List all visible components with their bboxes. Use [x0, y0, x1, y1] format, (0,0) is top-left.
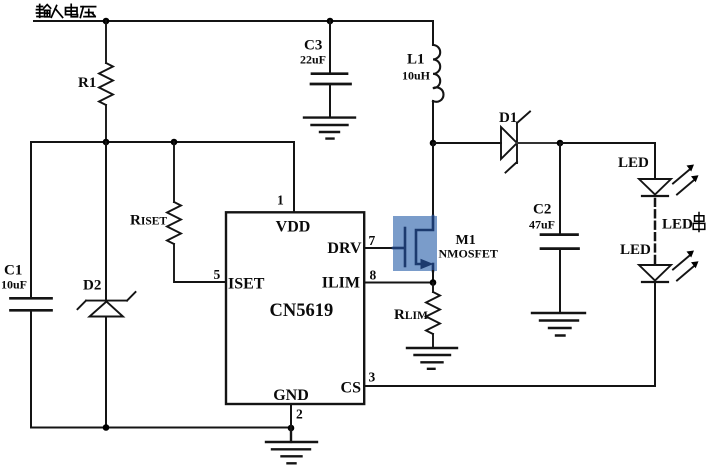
svg-text:3: 3	[369, 370, 376, 385]
transistor M1 NMOSFET (highlighted)	[393, 216, 498, 271]
svg-text:5: 5	[214, 267, 221, 282]
wire D1 cathode to node	[517, 142, 560, 144]
svg-text:CS: CS	[341, 380, 362, 397]
svg-text:10uF: 10uF	[1, 278, 27, 292]
wire L1 top lead	[432, 21, 434, 45]
wire dashed LED string	[654, 199, 657, 265]
svg-text:RLIM: RLIM	[394, 307, 428, 323]
junction dot top rail / C3	[327, 18, 334, 25]
wire node to LED string top	[560, 143, 655, 179]
net label LED串	[662, 213, 705, 233]
capacitor C3	[300, 21, 351, 117]
resistor R1	[78, 21, 113, 142]
wire top rail	[34, 20, 433, 22]
junction dot top rail / R1	[103, 18, 110, 25]
svg-text:7: 7	[369, 233, 376, 248]
junction dot ILIM / M1 source / RLIM	[430, 279, 437, 286]
svg-text:C1: C1	[4, 263, 22, 279]
wire GND pin2	[290, 404, 292, 428]
svg-text:C2: C2	[533, 202, 551, 218]
svg-text:RISET: RISET	[130, 213, 167, 229]
wire L1 bottom lead	[432, 101, 434, 143]
junction dot L1 / D1 / M1 drain	[430, 140, 437, 147]
svg-text:L1: L1	[407, 52, 425, 68]
net label 输入电压 (input voltage)	[37, 4, 96, 17]
ground (RLIM)	[407, 348, 457, 369]
zener diode D2	[78, 142, 136, 428]
wire bottom ground rail	[31, 427, 291, 429]
svg-text:1: 1	[277, 193, 284, 208]
svg-text:LED: LED	[662, 217, 693, 233]
ground (C3)	[304, 118, 355, 139]
wire DRV pin7	[364, 247, 393, 249]
svg-text:R1: R1	[78, 75, 96, 91]
capacitor C1	[1, 142, 52, 428]
junction dot bottom rail / GND pin	[288, 425, 295, 432]
LED D-LED2	[620, 242, 699, 282]
inductor L1	[402, 45, 443, 102]
LED D-LED1	[618, 155, 699, 196]
junction dot rail2 / R1 / D2	[103, 139, 110, 146]
wire VIN rail2 (R1 bottom to VDD)	[31, 142, 294, 212]
svg-text:ISET: ISET	[228, 276, 265, 293]
op-amp/controller IC U1 CN5619	[226, 212, 364, 404]
resistor RISET	[130, 142, 226, 282]
capacitor C2	[529, 143, 579, 313]
svg-text:8: 8	[370, 268, 377, 283]
wire M1 drain	[432, 143, 434, 216]
svg-text:CN5619: CN5619	[270, 301, 334, 321]
resistor RLIM	[394, 283, 440, 348]
wire D1 anode	[433, 142, 501, 144]
svg-text:47uF: 47uF	[529, 218, 555, 232]
svg-text:LED: LED	[620, 242, 651, 258]
svg-text:NMOSFET: NMOSFET	[439, 247, 498, 261]
ground (C2)	[532, 313, 585, 336]
svg-text:2: 2	[296, 407, 303, 422]
junction dot rail2 / RISET	[171, 139, 178, 146]
ground (IC GND)	[266, 428, 317, 463]
svg-text:D1: D1	[499, 110, 517, 126]
svg-text:DRV: DRV	[327, 240, 362, 257]
junction dot D1 / C2 / LED string	[557, 140, 564, 147]
wire LED string bottom to CS	[364, 283, 655, 386]
svg-text:D2: D2	[83, 278, 101, 294]
svg-text:VDD: VDD	[276, 219, 311, 236]
svg-text:C3: C3	[304, 38, 322, 54]
svg-text:GND: GND	[273, 387, 309, 404]
wire M1 source	[432, 271, 434, 283]
diode D1	[499, 110, 530, 173]
svg-text:ILIM: ILIM	[322, 275, 360, 292]
svg-text:LED: LED	[618, 155, 649, 171]
wire ILIM pin8	[364, 282, 433, 284]
svg-text:10uH: 10uH	[402, 69, 431, 83]
junction dot bottom rail / D2	[103, 424, 110, 431]
svg-text:22uF: 22uF	[300, 53, 326, 67]
